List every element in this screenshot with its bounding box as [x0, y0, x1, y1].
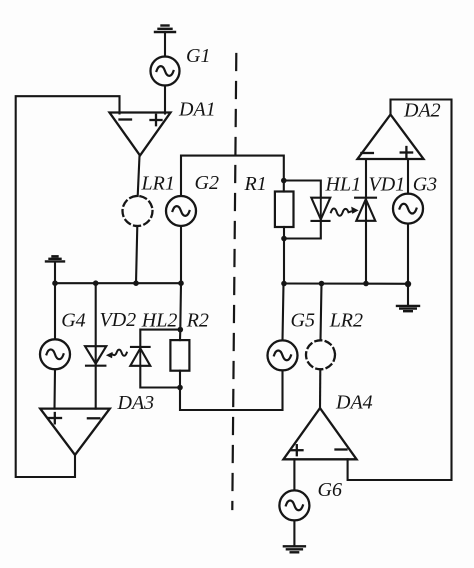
- wire bus to R2: [180, 283, 181, 340]
- optical coupling arrow HL1 to VD1: [331, 209, 351, 216]
- node R1 top: [281, 178, 287, 184]
- node R2 top: [178, 327, 184, 333]
- source G1: [151, 57, 180, 86]
- wire DA1 output to LR1: [138, 156, 140, 196]
- ground (left, above bus): [54, 262, 56, 283]
- wire feedback: DA3 output to left rail to DA1 inverting input: [16, 96, 120, 477]
- source G6: [279, 490, 309, 520]
- svg-text:G5: G5: [291, 310, 315, 332]
- wire ground to G1: [164, 32, 166, 57]
- photodiode VD1: [365, 159, 367, 284]
- node R2 bottom / HL2 join: [177, 385, 183, 391]
- op-amp DA1: [110, 113, 171, 156]
- ground (below G3 node): [407, 284, 409, 305]
- wire DA2 output via right rail to DA4 inverting input: [348, 100, 452, 481]
- svg-text:R2: R2: [186, 310, 209, 332]
- svg-text:G6: G6: [318, 479, 342, 501]
- LR1 dashed circle: [123, 196, 153, 226]
- wire G3 bottom to bus: [407, 224, 409, 284]
- svg-text:DA4: DA4: [335, 392, 373, 414]
- wire G2 bottom to bus: [180, 226, 182, 283]
- resistor R1: [275, 192, 294, 228]
- svg-text:G3: G3: [413, 174, 437, 196]
- wire G3 to DA2 + input: [407, 159, 409, 194]
- ground (below G6): [284, 546, 305, 552]
- op-amp DA4: [283, 408, 356, 459]
- svg-text:HL1: HL1: [325, 174, 362, 196]
- svg-text:VD1: VD1: [369, 174, 406, 196]
- wire R2 bottom down, cross link to G5: [180, 370, 283, 410]
- divider dashed line: [232, 54, 236, 509]
- wire G2 top to R1 node: [181, 156, 284, 196]
- svg-text:R1: R1: [244, 173, 267, 195]
- svg-text:G1: G1: [186, 45, 210, 67]
- photodiode VD2: [95, 283, 97, 408]
- wire DA4 + input to G6: [293, 459, 295, 490]
- LR2 dashed circle: [306, 340, 335, 369]
- wire LR1 to bus: [136, 226, 137, 283]
- ground (top, above G1): [155, 26, 175, 33]
- svg-text:DA1: DA1: [178, 99, 216, 121]
- op-amp DA3: [40, 409, 110, 455]
- resistor R2: [170, 340, 189, 371]
- svg-text:LR1: LR1: [141, 173, 175, 195]
- LED HL2: [140, 330, 180, 347]
- wire G4 to DA3 + input: [53, 369, 56, 408]
- source G2: [166, 196, 196, 226]
- op-amp DA2: [358, 115, 424, 160]
- bus right: [284, 282, 408, 284]
- svg-text:G2: G2: [195, 172, 219, 194]
- svg-text:DA2: DA2: [403, 100, 441, 122]
- wire G6 to ground: [293, 521, 295, 547]
- wire LR2 to DA4 output: [319, 369, 321, 408]
- wire G1 to DA1 + input: [164, 86, 166, 114]
- svg-text:G4: G4: [61, 310, 85, 332]
- wire R1 leads: [283, 181, 285, 192]
- bus left: [55, 282, 181, 284]
- node R1 bottom: [281, 236, 287, 242]
- svg-text:VD2: VD2: [100, 309, 137, 331]
- svg-text:LR2: LR2: [329, 310, 363, 332]
- source G3: [393, 194, 423, 224]
- wire bus to G5: [283, 284, 284, 341]
- svg-text:DA3: DA3: [117, 392, 155, 414]
- optical coupling arrow HL2 to VD2: [112, 350, 127, 356]
- LED HL1: [284, 181, 321, 198]
- source G5: [268, 340, 298, 370]
- wire bus to LR2: [321, 284, 322, 341]
- wire bus to G4: [54, 283, 56, 339]
- source G4: [40, 339, 70, 369]
- svg-text:HL2: HL2: [141, 310, 178, 332]
